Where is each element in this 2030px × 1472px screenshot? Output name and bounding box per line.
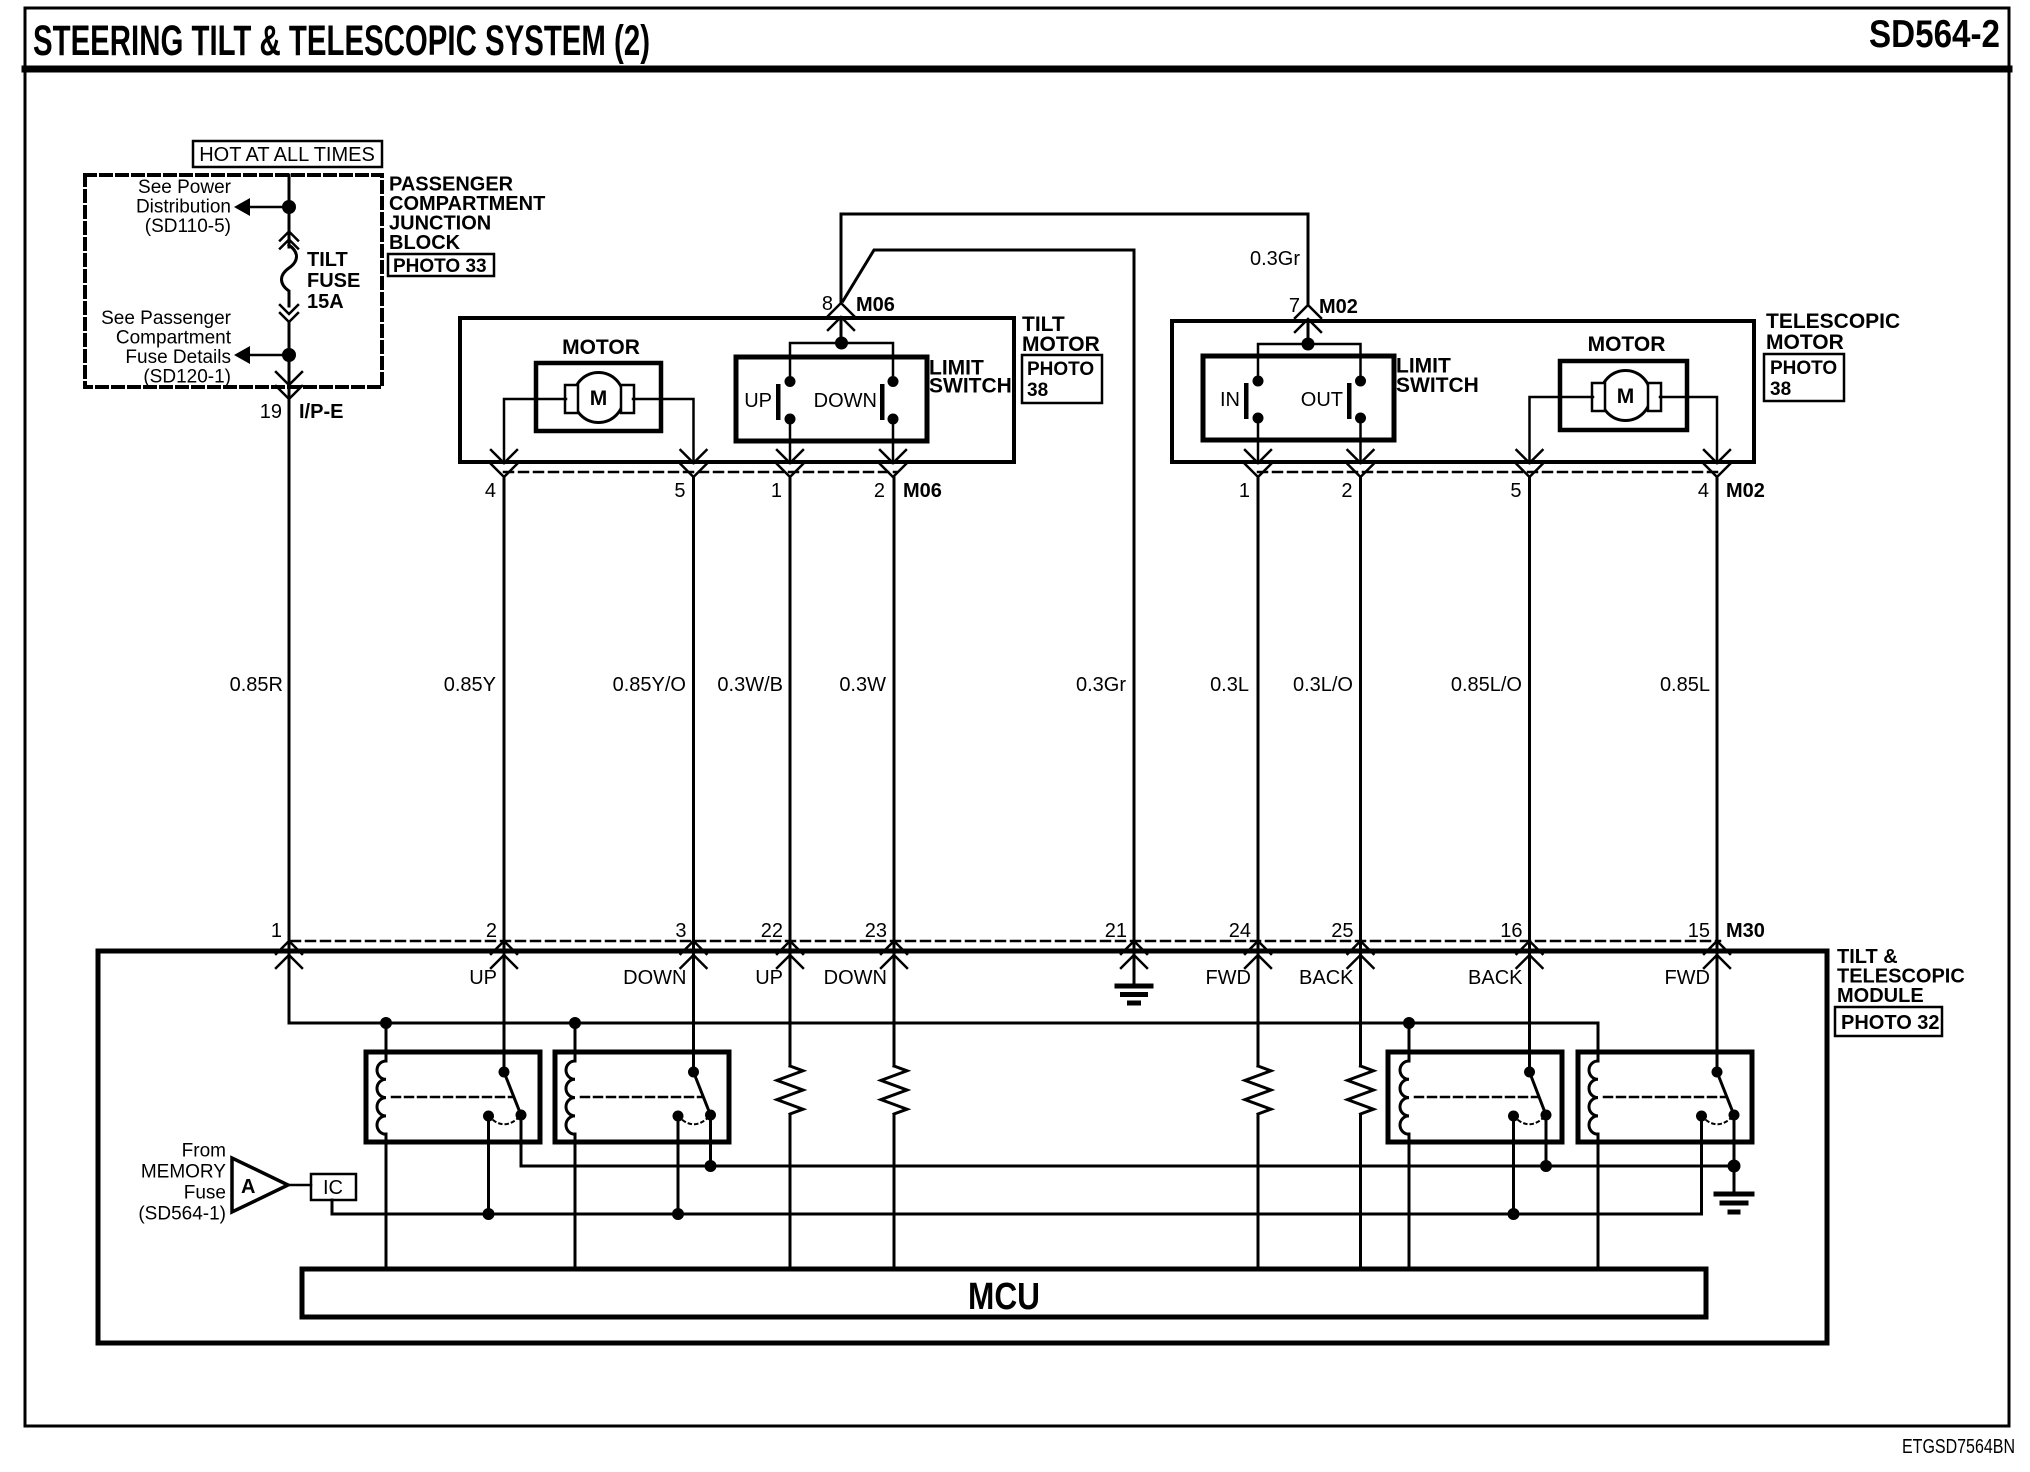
- relay K3 (tele back) armature: [1530, 1072, 1547, 1115]
- wire: resistor R3 (pin 24 sense) to MCU: [1257, 1115, 1260, 1269]
- motor M1 right brush: [621, 385, 634, 413]
- label box PHOTO 38 (tilt): [1022, 355, 1102, 403]
- switch IN lower contact: [1253, 413, 1264, 424]
- wire: tilt motor right terminal to pin 5: [633, 399, 694, 463]
- label TILT & TELESCOPIC MODULE: [1837, 946, 1965, 1007]
- svg-text:1: 1: [271, 920, 282, 942]
- fuse TILT FUSE 15A : connector chevrons + element: [280, 232, 298, 323]
- svg-text:M: M: [590, 387, 608, 410]
- label See Power Distribution (SD110-5): [136, 177, 232, 237]
- svg-text:0.85L/O: 0.85L/O: [1451, 674, 1522, 696]
- svg-text:M02: M02: [1319, 296, 1358, 318]
- svg-text:MEMORY: MEMORY: [141, 1162, 226, 1183]
- wire: telescopic limit switch common rail: [1258, 344, 1361, 375]
- wire: relay K2 (tilt down) coil to MCU: [574, 1134, 577, 1269]
- wire: relay K2 common drop: [709, 1115, 712, 1166]
- connector pin 23 M30: [881, 941, 907, 968]
- switch DOWN blade: [880, 384, 885, 420]
- wire: 0.3Gr from M06 pin 8 to module pin 21: [843, 250, 1134, 984]
- connector pin 5 M06: [681, 450, 707, 477]
- motor M1 (tilt) box: [536, 363, 661, 431]
- svg-text:4: 4: [485, 480, 496, 502]
- junction node K1 NC on IC rail: [483, 1208, 495, 1220]
- wire: relay K4 (tele fwd) coil to MCU: [1597, 1134, 1600, 1269]
- svg-text:0.3Gr: 0.3Gr: [1250, 248, 1300, 270]
- wire: resistor R2 (pin 23 sense) to MCU: [893, 1115, 896, 1269]
- svg-text:Distribution: Distribution: [136, 197, 231, 218]
- switch IN upper contact: [1253, 376, 1264, 387]
- wire: relay K3 NC contact drop: [1512, 1116, 1515, 1214]
- wire 0.85Y: M06 pin 4 to relay contact (module pin 2): [503, 478, 506, 1068]
- svg-text:MODULE: MODULE: [1837, 985, 1924, 1007]
- wire: resistor R4 (pin 25 sense) to MCU: [1359, 1115, 1362, 1269]
- wire 0.85L/O: M02 pin 5 to relay contact (module pin 16): [1528, 478, 1531, 1068]
- tilt & telescopic module outline box: [98, 951, 1827, 1343]
- relay K3 (tele back) coil: [1400, 1061, 1409, 1134]
- relay K3 (tele back) coil-to-armature dashed link: [1415, 1096, 1537, 1099]
- relay K3 (tele back) upper fixed contact: [1524, 1067, 1535, 1078]
- junction node relay K2 coil tap: [569, 1017, 581, 1029]
- svg-text:PHOTO 33: PHOTO 33: [393, 256, 487, 277]
- svg-text:23: 23: [865, 920, 887, 942]
- relay K4 (tele fwd) box: [1578, 1052, 1752, 1142]
- wire: tilt motor left terminal to pin 4: [504, 399, 566, 463]
- connector pin 4 M02: [1704, 450, 1730, 477]
- relay K4 (tele fwd) armature: [1717, 1072, 1734, 1115]
- wire: limit switch common rail: [790, 343, 893, 375]
- svg-text:PHOTO: PHOTO: [1770, 358, 1837, 379]
- resistor R4 (pin 25 sense): [1348, 1066, 1374, 1114]
- junction node K2 common on rail: [705, 1160, 717, 1172]
- svg-text:(SD110-5): (SD110-5): [145, 216, 231, 237]
- relay K2 (tilt down) coil: [566, 1061, 575, 1134]
- svg-text:TELESCOPIC: TELESCOPIC: [1766, 310, 1900, 333]
- wire to See Power Distribution arrow: [249, 206, 289, 209]
- connector pin 5 M02: [1517, 450, 1543, 477]
- wire 0.3L/O: M02 pin 2 to module pin 25: [1359, 478, 1362, 1066]
- svg-text:0.3L/O: 0.3L/O: [1293, 674, 1353, 696]
- label box PHOTO 33: [388, 254, 494, 277]
- junction node tilt limit switch feed: [835, 337, 848, 350]
- svg-text:IC: IC: [323, 1177, 343, 1199]
- MCU block: [302, 1269, 1706, 1318]
- connector pin 16 M30: [1517, 941, 1543, 968]
- tilt limit switch box: [736, 357, 927, 441]
- svg-text:MOTOR: MOTOR: [1766, 331, 1844, 354]
- relay K1 (tilt up) armature: [504, 1072, 521, 1115]
- label box PHOTO 32: [1835, 1007, 1942, 1036]
- relay K1 (tilt up) NC contact: [483, 1111, 494, 1122]
- svg-text:M: M: [1617, 385, 1635, 408]
- relay K4 (tele fwd) coil: [1589, 1061, 1598, 1134]
- arrow to See Power Distribution: [234, 198, 250, 216]
- relay K4 (tele fwd) common contact: [1729, 1110, 1740, 1121]
- relay K3 (tele back) common contact: [1541, 1110, 1552, 1121]
- title bar underline: [25, 66, 2009, 73]
- wire: relay K3 coil tap drop: [1408, 1023, 1411, 1061]
- svg-text:MOTOR: MOTOR: [1588, 333, 1666, 356]
- resistor R2 (pin 23 sense): [881, 1066, 907, 1114]
- svg-text:M02: M02: [1726, 480, 1765, 502]
- resistor R1 (pin 22 sense): [777, 1066, 803, 1114]
- wire to See Passenger Compartment Fuse Details arrow: [249, 354, 289, 357]
- connector pin 2 M30: [491, 941, 517, 968]
- IC block: [311, 1174, 356, 1200]
- svg-text:5: 5: [1510, 480, 1521, 502]
- wire: DOWN switch to pin 2: [892, 419, 895, 463]
- svg-text:8: 8: [822, 293, 833, 315]
- telescopic limit switch box: [1203, 356, 1394, 440]
- svg-text:DOWN: DOWN: [824, 967, 887, 989]
- HOT AT ALL TIMES box: [193, 141, 382, 167]
- wire: resistor R1 (pin 22 sense) to MCU: [789, 1115, 792, 1269]
- svg-text:Compartment: Compartment: [116, 328, 232, 349]
- svg-text:BACK: BACK: [1468, 967, 1523, 989]
- wire: relay K3 (tele back) coil to MCU: [1408, 1134, 1411, 1269]
- relay K4 (tele fwd) upper fixed contact: [1712, 1067, 1723, 1078]
- label See Passenger Compartment Fuse Details (SD120-1): [101, 308, 232, 388]
- wire: relay K3 common drop: [1545, 1115, 1548, 1166]
- junction node K3 NC on IC rail: [1508, 1208, 1520, 1220]
- wire: telescopic motor left terminal to pin 5: [1530, 397, 1594, 463]
- wire 0.3W/B: M06 pin 1 to module pin 22: [789, 478, 792, 1066]
- svg-text:7: 7: [1289, 295, 1300, 317]
- wire 0.85R: fuse to module pin 1: [288, 399, 291, 1023]
- svg-text:0.3W/B: 0.3W/B: [717, 674, 783, 696]
- connector M02 dashed row: [1258, 471, 1721, 474]
- motor M1 left brush: [565, 385, 578, 413]
- svg-text:I/P-E: I/P-E: [299, 401, 343, 423]
- connector pin 21 M30: [1121, 941, 1147, 968]
- svg-text:A: A: [241, 1176, 255, 1198]
- label TILT MOTOR: [1022, 313, 1100, 356]
- buffer A (from memory fuse): [232, 1158, 288, 1212]
- svg-text:25: 25: [1331, 920, 1353, 942]
- svg-text:(SD120-1): (SD120-1): [143, 367, 231, 388]
- svg-text:0.3W: 0.3W: [839, 674, 886, 696]
- wire: battery feed into junction block: [288, 175, 291, 247]
- svg-text:DOWN: DOWN: [814, 390, 877, 412]
- ground G1 (module pin 21): [1117, 953, 1151, 1003]
- svg-text:SWITCH: SWITCH: [929, 375, 1012, 398]
- svg-text:FWD: FWD: [1205, 967, 1251, 989]
- switch OUT lower contact: [1355, 413, 1366, 424]
- connector pin 2 M06: [880, 450, 906, 477]
- junction node telescopic limit switch feed: [1302, 338, 1315, 351]
- svg-text:0.3Gr: 0.3Gr: [1076, 674, 1126, 696]
- relay K1 (tilt up) coil-to-armature dashed link: [392, 1096, 512, 1099]
- svg-text:2: 2: [1341, 480, 1352, 502]
- svg-text:UP: UP: [469, 967, 497, 989]
- svg-text:FWD: FWD: [1664, 967, 1710, 989]
- label TILT FUSE 15A: [307, 249, 360, 313]
- relay K2 (tilt down) coil-to-armature dashed link: [581, 1096, 702, 1099]
- svg-text:3: 3: [675, 920, 686, 942]
- switch OUT upper contact: [1355, 376, 1366, 387]
- tilt motor unit outline box: [460, 318, 1014, 462]
- svg-text:1: 1: [1239, 480, 1250, 502]
- relay K2 (tilt down) box: [555, 1052, 729, 1142]
- wire: relay K1 coil tap drop: [385, 1023, 388, 1061]
- wire: relay K1 (tilt up) coil to MCU: [385, 1134, 388, 1269]
- svg-text:Fuse: Fuse: [184, 1183, 226, 1204]
- svg-text:0.85R: 0.85R: [230, 674, 283, 696]
- wire: M06 pin 8 to M02 pin 7 jumper (top): [841, 214, 1308, 303]
- svg-text:OUT: OUT: [1301, 389, 1343, 411]
- connector pin 7 M02 chevrons: [1295, 305, 1321, 332]
- relay K2 (tilt down) armature: [694, 1072, 711, 1115]
- wire: relay K1 NC contact drop: [487, 1116, 490, 1214]
- connector pin 22 M30: [777, 941, 803, 968]
- relay K4 (tele fwd) NC contact: [1696, 1111, 1707, 1122]
- svg-text:PHOTO 32: PHOTO 32: [1841, 1012, 1940, 1034]
- relay K2 (tilt down) common contact: [705, 1110, 716, 1121]
- switch DOWN upper contact: [888, 376, 899, 387]
- connector pin 1 M02: [1245, 450, 1271, 477]
- connector pin 2 M02: [1348, 450, 1374, 477]
- svg-text:24: 24: [1229, 920, 1251, 942]
- wire: relay K4 common drop: [1733, 1115, 1736, 1166]
- switch DOWN lower contact: [888, 414, 899, 425]
- label From MEMORY Fuse (SD564-1): [138, 1141, 226, 1225]
- relay K1 (tilt up) coil: [377, 1061, 386, 1134]
- wire: IC rail (line B) to relay K4 NC contact: [332, 1116, 1702, 1214]
- wire 0.85L: M02 pin 4 to relay contact (module pin 15): [1716, 478, 1719, 1068]
- svg-text:From: From: [182, 1141, 226, 1162]
- wire: fuse output down inside junction block: [288, 322, 291, 399]
- motor M1 armature circle: [574, 373, 624, 423]
- svg-text:ETGSD7564BN: ETGSD7564BN: [1902, 1436, 2015, 1458]
- relay K2 (tilt down) NC contact: [673, 1111, 684, 1122]
- motor M2 (telescopic) box: [1560, 361, 1687, 430]
- connector pin 25 M30: [1348, 941, 1374, 968]
- connector pin 15 M30: [1704, 941, 1730, 968]
- switch UP lower contact: [785, 414, 796, 425]
- arrow to See Passenger Compartment Fuse Details: [234, 346, 250, 364]
- resistor R3 (pin 24 sense): [1245, 1066, 1271, 1114]
- relay K1 (tilt up) box: [366, 1052, 540, 1142]
- switch UP blade: [776, 384, 781, 420]
- svg-text:5: 5: [674, 480, 685, 502]
- svg-text:M06: M06: [856, 294, 895, 316]
- connector pin 19 I/P-E leaving junction block: [276, 372, 302, 399]
- svg-text:TILT: TILT: [307, 249, 348, 271]
- label LIMIT SWITCH (telescopic): [1396, 355, 1479, 398]
- relay K4 (tele fwd) coil-to-armature dashed link: [1604, 1096, 1725, 1099]
- svg-text:SD564-2: SD564-2: [1869, 13, 2000, 56]
- wire 0.3W: M06 pin 2 to module pin 23: [893, 478, 896, 1066]
- relay K2 (tilt down) contact travel dotted arc: [678, 1115, 711, 1124]
- svg-text:MOTOR: MOTOR: [1022, 333, 1100, 356]
- relay K3 (tele back) box: [1388, 1052, 1562, 1142]
- wire: IN switch to pin 1 M02: [1257, 418, 1260, 463]
- ground G2 (relay output rail): [1716, 1166, 1752, 1212]
- svg-text:BACK: BACK: [1299, 967, 1354, 989]
- switch OUT blade: [1347, 383, 1352, 419]
- svg-text:Fuse Details: Fuse Details: [125, 347, 231, 368]
- switch UP upper contact: [785, 376, 796, 387]
- junction node relay K3 coil tap: [1403, 1017, 1415, 1029]
- svg-text:22: 22: [761, 920, 783, 942]
- junction node K4 common on rail: [1728, 1160, 1741, 1173]
- svg-text:HOT AT ALL TIMES: HOT AT ALL TIMES: [199, 144, 375, 166]
- connector pin 1 M30: [276, 941, 302, 968]
- junction node at power distribution tap: [282, 200, 296, 214]
- svg-text:BLOCK: BLOCK: [389, 232, 461, 254]
- junction node K2 NC on IC rail: [672, 1208, 684, 1220]
- wire: UP switch to pin 1: [789, 419, 792, 463]
- svg-text:4: 4: [1698, 480, 1709, 502]
- svg-text:UP: UP: [755, 967, 783, 989]
- wire: relay coil feed rail from pin 1: [289, 1023, 1598, 1061]
- svg-text:2: 2: [874, 480, 885, 502]
- relay K4 (tele fwd) contact travel dotted arc: [1702, 1115, 1735, 1124]
- relay K1 (tilt up) upper fixed contact: [499, 1067, 510, 1078]
- wire: relay K2 coil tap drop: [574, 1023, 577, 1061]
- label PASSENGER COMPARTMENT JUNCTION BLOCK: [389, 174, 545, 255]
- telescopic motor unit outline box: [1172, 321, 1754, 462]
- svg-text:(SD564-1): (SD564-1): [138, 1204, 226, 1225]
- svg-text:UP: UP: [744, 390, 772, 412]
- connector pin 1 M06: [777, 450, 803, 477]
- wire: pin 7 into telescopic limit switch common: [1307, 321, 1310, 344]
- label LIMIT SWITCH (tilt): [929, 357, 1012, 398]
- connector pin 24 M30: [1245, 941, 1271, 968]
- svg-text:0.85Y/O: 0.85Y/O: [613, 674, 686, 696]
- svg-text:38: 38: [1770, 379, 1791, 400]
- svg-text:IN: IN: [1220, 389, 1240, 411]
- motor M2 armature circle: [1601, 371, 1651, 421]
- wire: telescopic motor right terminal to pin 4: [1660, 397, 1717, 463]
- svg-text:M06: M06: [903, 480, 942, 502]
- label box PHOTO 38 (telescopic): [1764, 354, 1844, 401]
- motor M2 right brush: [1648, 383, 1661, 411]
- relay K3 (tele back) contact travel dotted arc: [1514, 1115, 1547, 1124]
- svg-text:19: 19: [260, 401, 282, 423]
- svg-text:15A: 15A: [307, 291, 344, 313]
- svg-text:MCU: MCU: [968, 1276, 1040, 1318]
- svg-text:DOWN: DOWN: [623, 967, 686, 989]
- junction node relay K1 coil tap: [380, 1017, 392, 1029]
- svg-text:PHOTO: PHOTO: [1027, 359, 1094, 380]
- svg-text:FUSE: FUSE: [307, 270, 360, 292]
- connector M06 dashed row: [504, 471, 897, 474]
- junction node K3 common on rail: [1540, 1160, 1552, 1172]
- svg-text:See Power: See Power: [138, 177, 232, 198]
- svg-text:1: 1: [771, 480, 782, 502]
- label TELESCOPIC MOTOR: [1766, 310, 1900, 354]
- motor M2 left brush: [1592, 383, 1605, 411]
- svg-text:0.85L: 0.85L: [1660, 674, 1710, 696]
- connector pin 4 M06: [491, 450, 517, 477]
- connector pin 8 M06 chevrons: [828, 303, 854, 330]
- svg-text:21: 21: [1105, 920, 1127, 942]
- relay K2 (tilt down) upper fixed contact: [688, 1067, 699, 1078]
- svg-text:M30: M30: [1726, 920, 1765, 942]
- svg-text:38: 38: [1027, 380, 1048, 401]
- wire 0.3L: M02 pin 1 to module pin 24: [1257, 478, 1260, 1066]
- wire: pin 8 into limit switch common: [840, 318, 843, 343]
- connector pin 3 M30: [681, 941, 707, 968]
- svg-text:MOTOR: MOTOR: [562, 336, 640, 359]
- wire: relay K2 NC contact drop: [677, 1116, 680, 1214]
- wire 0.85Y/O: M06 pin 5 to relay contact (module pin 3): [692, 478, 695, 1068]
- svg-text:STEERING TILT & TELESCOPIC SYS: STEERING TILT & TELESCOPIC SYSTEM (2): [33, 17, 650, 65]
- junction node at fuse details tap: [282, 348, 296, 362]
- relay K1 (tilt up) contact travel dotted arc: [489, 1115, 522, 1124]
- svg-text:SWITCH: SWITCH: [1396, 374, 1479, 397]
- svg-text:0.85Y: 0.85Y: [444, 674, 496, 696]
- wire: relay output rail (line A): [521, 1165, 1734, 1168]
- switch IN blade: [1244, 383, 1249, 419]
- wire: buffer A to IC: [288, 1184, 311, 1187]
- passenger compartment junction block dashed outline: [85, 175, 382, 387]
- relay K1 (tilt up) common contact: [516, 1110, 527, 1121]
- connector M30 dashed row: [291, 940, 1720, 943]
- wire: OUT switch to pin 2 M02: [1359, 418, 1362, 463]
- svg-text:2: 2: [486, 920, 497, 942]
- wire: relay K1 common to output rail: [520, 1115, 523, 1166]
- svg-text:15: 15: [1688, 920, 1710, 942]
- svg-text:See Passenger: See Passenger: [101, 308, 232, 329]
- svg-text:16: 16: [1500, 920, 1522, 942]
- svg-text:0.3L: 0.3L: [1210, 674, 1249, 696]
- relay K3 (tele back) NC contact: [1508, 1111, 1519, 1122]
